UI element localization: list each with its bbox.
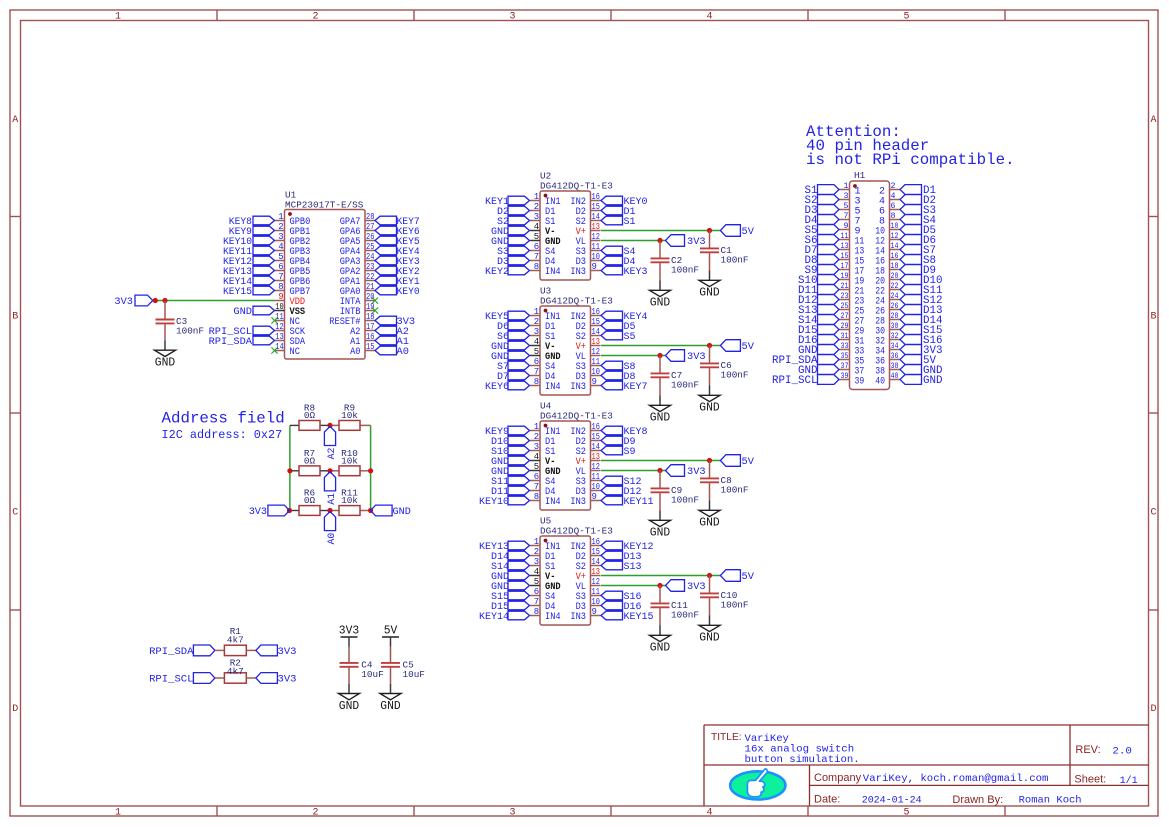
junction A2 xyxy=(327,423,332,428)
svg-text:10: 10 xyxy=(592,482,600,492)
H1 pin 6 xyxy=(879,202,900,218)
U5 pin 16 IN2 xyxy=(570,537,600,553)
svg-text:4: 4 xyxy=(278,242,283,252)
global label KEY2 xyxy=(375,266,420,278)
svg-text:3V3: 3V3 xyxy=(339,625,359,638)
U5 pin 1 IN1 xyxy=(530,537,561,553)
svg-text:23: 23 xyxy=(841,292,849,301)
global label GND xyxy=(798,365,839,378)
U4 pin 9 IN3 xyxy=(570,492,600,508)
svg-text:GND: GND xyxy=(155,357,175,370)
svg-text:100nF: 100nF xyxy=(721,255,749,266)
capacitor C11 100nF xyxy=(650,586,700,655)
U1 pin 12 SCK xyxy=(275,322,306,338)
svg-text:24: 24 xyxy=(891,292,899,301)
wire 3V3 to U1 VDD xyxy=(153,300,275,302)
svg-text:17: 17 xyxy=(366,322,374,332)
svg-text:1/1: 1/1 xyxy=(1120,775,1138,787)
U3 pin 1 IN1 xyxy=(530,307,561,323)
svg-text:27: 27 xyxy=(366,222,374,232)
global label GND xyxy=(491,341,530,353)
resistor R7 0Ω xyxy=(299,448,320,476)
global label KEY13 xyxy=(223,266,275,278)
svg-text:3: 3 xyxy=(509,808,515,819)
global label GND xyxy=(900,375,943,388)
wire segment (right) xyxy=(360,470,371,472)
H1 pin 4 xyxy=(879,192,900,208)
svg-text:15: 15 xyxy=(592,317,600,327)
svg-text:100nF: 100nF xyxy=(721,600,749,611)
global label S8 xyxy=(900,255,936,268)
U5 pin 10 D3 xyxy=(576,597,601,613)
svg-text:5: 5 xyxy=(534,347,539,357)
svg-text:DG412DQ-T1-E3: DG412DQ-T1-E3 xyxy=(540,411,613,422)
H1 pin 37 xyxy=(839,362,864,378)
global label KEY6 xyxy=(375,226,420,238)
global label RPI_SCL xyxy=(772,375,839,388)
wire U3 VL to 3V3 xyxy=(601,355,666,357)
svg-text:37: 37 xyxy=(841,362,849,371)
global label D12 xyxy=(798,295,839,308)
global label S3 xyxy=(497,246,530,258)
svg-text:8: 8 xyxy=(278,282,283,292)
global label RPI_SCL xyxy=(149,673,215,686)
svg-text:13: 13 xyxy=(841,242,849,251)
global label KEY5 xyxy=(375,236,420,248)
svg-text:13: 13 xyxy=(275,332,283,342)
svg-text:21: 21 xyxy=(366,282,374,292)
svg-text:GND: GND xyxy=(923,375,943,387)
junction 3V3 xyxy=(657,468,662,473)
svg-text:A2: A2 xyxy=(326,448,338,460)
global label D11 xyxy=(798,285,839,298)
global label D4 xyxy=(601,256,636,268)
global label KEY4 xyxy=(601,311,648,323)
U2 pin 10 D3 xyxy=(576,252,601,268)
U5 pin 15 D2 xyxy=(576,547,601,563)
svg-text:Drawn By:: Drawn By: xyxy=(952,794,1003,806)
U3 pin 14 S2 xyxy=(576,327,601,343)
svg-text:10: 10 xyxy=(275,302,283,312)
global label D16 xyxy=(601,601,642,613)
wire U4 V+ to 5V xyxy=(601,460,720,462)
H1 pin 7 xyxy=(839,212,861,228)
svg-text:7: 7 xyxy=(534,482,539,492)
U1 pin 23 GPA2 xyxy=(340,262,375,278)
power label 3V3 xyxy=(666,580,706,593)
svg-text:5V: 5V xyxy=(384,625,398,638)
U2 pin 6 S4 xyxy=(530,242,555,258)
U4 pin 6 S4 xyxy=(530,472,555,488)
capacitor C3 100nF xyxy=(155,301,205,370)
svg-text:40: 40 xyxy=(891,372,899,381)
resistor R6 0Ω xyxy=(299,488,320,516)
svg-text:S1: S1 xyxy=(624,216,636,228)
svg-text:GND: GND xyxy=(699,517,719,530)
svg-text:18: 18 xyxy=(366,312,374,322)
U5 pin 12 VL xyxy=(576,577,601,593)
global label S12 xyxy=(601,476,642,488)
U3 pin 10 D3 xyxy=(576,367,601,383)
svg-text:12: 12 xyxy=(592,347,600,357)
svg-text:3: 3 xyxy=(278,232,283,242)
svg-text:3V3: 3V3 xyxy=(687,236,706,248)
junction 3V3 xyxy=(657,238,662,243)
svg-text:GND: GND xyxy=(650,297,670,310)
power label 3V3 (address field) xyxy=(249,505,290,518)
svg-text:17: 17 xyxy=(841,262,849,271)
global label S16 xyxy=(601,591,642,603)
H1 pin 36 xyxy=(875,352,900,368)
U1 pin 3 GPB2 xyxy=(275,232,311,248)
svg-text:3V3: 3V3 xyxy=(278,646,297,658)
svg-text:22: 22 xyxy=(891,282,899,291)
svg-text:KEY10: KEY10 xyxy=(479,496,509,508)
svg-text:D: D xyxy=(1150,704,1156,715)
svg-text:23: 23 xyxy=(366,262,374,272)
U2 pin 1 IN1 xyxy=(530,192,561,208)
wire segment (right) xyxy=(360,424,371,426)
U1 pin 2 GPB1 xyxy=(275,222,311,238)
wire segment (left) xyxy=(290,470,299,472)
svg-text:4: 4 xyxy=(706,12,712,23)
global label D8 xyxy=(601,371,636,383)
global label KEY7 xyxy=(375,216,420,228)
capacitor C4 10uF xyxy=(339,647,384,713)
junction at C3 top xyxy=(162,298,167,303)
svg-text:14: 14 xyxy=(592,442,600,452)
svg-text:KEY6: KEY6 xyxy=(485,381,509,393)
svg-text:4: 4 xyxy=(891,192,896,201)
svg-text:36: 36 xyxy=(891,352,899,361)
capacitor C9 100nF xyxy=(650,471,700,540)
svg-text:A0: A0 xyxy=(397,346,409,358)
U1 pin 13 SDA xyxy=(275,332,306,348)
logo (hand in ellipse) xyxy=(730,769,785,800)
frame column numbers xyxy=(115,12,910,819)
U3 pin 11 S3 xyxy=(576,357,601,373)
svg-text:11: 11 xyxy=(592,472,600,482)
global label A1 (rotated) xyxy=(324,472,337,505)
U1 pin 21 GPA0 xyxy=(340,282,375,298)
junction at 3V3 label xyxy=(153,298,158,303)
power label 5V xyxy=(720,225,754,238)
svg-text:1: 1 xyxy=(844,182,849,191)
junction 5V xyxy=(707,228,712,233)
global label KEY3 xyxy=(375,256,420,268)
U2 pin 3 S1 xyxy=(530,212,555,228)
svg-text:16: 16 xyxy=(592,537,600,547)
svg-text:31: 31 xyxy=(841,332,849,341)
svg-text:33: 33 xyxy=(841,342,849,351)
H1 pin 22 xyxy=(875,282,900,298)
title block text xyxy=(711,732,1138,806)
U3 pin 15 D2 xyxy=(576,317,601,333)
global label S3 xyxy=(900,205,936,218)
svg-text:18: 18 xyxy=(891,262,899,271)
global label KEY15 xyxy=(601,611,654,623)
junction 3V3 xyxy=(287,508,292,513)
svg-text:A0: A0 xyxy=(326,533,338,545)
svg-text:100nF: 100nF xyxy=(176,326,204,337)
frame row letters xyxy=(12,115,1156,715)
H1 pin 13 xyxy=(839,242,864,258)
H1 pin 38 xyxy=(875,362,900,378)
svg-text:DG412DQ-T1-E3: DG412DQ-T1-E3 xyxy=(540,181,613,192)
svg-text:RPI_SDA: RPI_SDA xyxy=(209,336,253,348)
svg-text:4k7: 4k7 xyxy=(227,666,244,677)
global label D14 xyxy=(900,315,943,328)
global label S15 xyxy=(491,591,530,603)
svg-text:VariKey, koch.roman@gmail.com: VariKey, koch.roman@gmail.com xyxy=(863,773,1049,785)
global label KEY2 xyxy=(485,266,530,278)
svg-text:20: 20 xyxy=(366,292,374,302)
capacitor C7 100nF xyxy=(650,356,700,425)
svg-text:4: 4 xyxy=(534,567,539,577)
U1 pin 1 GPB0 xyxy=(275,212,311,228)
H1 pin 8 xyxy=(879,212,900,228)
global label GND xyxy=(491,226,530,238)
svg-text:3: 3 xyxy=(509,12,515,23)
junction row2 left xyxy=(287,468,292,473)
svg-text:20: 20 xyxy=(891,272,899,281)
svg-text:8: 8 xyxy=(534,377,539,387)
svg-text:38: 38 xyxy=(891,362,899,371)
svg-text:5: 5 xyxy=(534,462,539,472)
IC U1 MCP23017T-E/SS xyxy=(285,190,366,360)
svg-text:GND: GND xyxy=(650,412,670,425)
U1 pin 19 INTB xyxy=(340,302,378,318)
global label S1 xyxy=(805,185,840,198)
svg-text:Roman Koch: Roman Koch xyxy=(1019,794,1082,806)
U3 pin 4 V- xyxy=(530,337,555,353)
resistor R2 4k7 xyxy=(215,658,256,684)
svg-text:KEY3: KEY3 xyxy=(624,266,648,278)
wire segment (right) xyxy=(360,510,371,512)
svg-text:16: 16 xyxy=(592,307,600,317)
global label S14 xyxy=(491,561,530,573)
global label S5 xyxy=(601,331,636,343)
svg-text:4k7: 4k7 xyxy=(227,634,244,645)
svg-text:8: 8 xyxy=(534,607,539,617)
U4 pin 5 GND xyxy=(530,462,561,478)
global label KEY8 xyxy=(229,216,275,228)
global label D1 xyxy=(900,185,936,198)
junction A0 xyxy=(327,508,332,513)
U3 pin 5 GND xyxy=(530,347,561,363)
junction 3V3 xyxy=(657,583,662,588)
svg-text:16: 16 xyxy=(891,252,899,261)
svg-text:3: 3 xyxy=(534,327,539,337)
H1 pin 30 xyxy=(875,322,900,338)
global label D15 xyxy=(798,325,839,338)
svg-text:8: 8 xyxy=(534,262,539,272)
svg-text:30: 30 xyxy=(891,322,899,331)
junction 3V3 xyxy=(657,353,662,358)
global label D6 xyxy=(900,235,936,248)
svg-text:C: C xyxy=(12,508,18,519)
svg-text:5V: 5V xyxy=(742,341,755,353)
U2 pin 11 S3 xyxy=(576,242,601,258)
wire U4 VL to 3V3 xyxy=(601,470,666,472)
svg-text:RPI_SCL: RPI_SCL xyxy=(149,674,193,686)
svg-text:16: 16 xyxy=(592,422,600,432)
global label D3 xyxy=(805,205,840,218)
svg-text:KEY14: KEY14 xyxy=(479,611,509,623)
svg-text:B: B xyxy=(12,312,18,323)
junction A1 xyxy=(327,468,332,473)
svg-text:2: 2 xyxy=(534,547,539,557)
svg-text:KEY2: KEY2 xyxy=(485,266,509,278)
svg-text:2: 2 xyxy=(534,202,539,212)
svg-text:32: 32 xyxy=(891,332,899,341)
wire 3V3 vertical (address field left) xyxy=(289,425,291,510)
global label S11 xyxy=(491,476,530,488)
svg-text:24: 24 xyxy=(366,252,374,262)
power label 5V xyxy=(720,455,754,468)
global label S10 xyxy=(798,275,839,288)
svg-text:10: 10 xyxy=(891,222,899,231)
svg-text:3: 3 xyxy=(534,212,539,222)
U4 pin 3 S1 xyxy=(530,442,555,458)
U2 pin 15 D2 xyxy=(576,202,601,218)
H1 pin 34 xyxy=(875,342,900,358)
svg-text:KEY7: KEY7 xyxy=(624,381,648,393)
junction 5V xyxy=(707,458,712,463)
svg-text:12: 12 xyxy=(275,322,283,332)
svg-text:6: 6 xyxy=(278,262,283,272)
svg-text:5V: 5V xyxy=(742,456,755,468)
global label S8 xyxy=(601,361,636,373)
note: Attention 40 pin header not RPi compatible xyxy=(806,123,1015,169)
power label 5V xyxy=(720,570,754,583)
U2 pin 2 D1 xyxy=(530,202,555,218)
svg-text:IN4: IN4 xyxy=(545,611,561,623)
global label KEY11 xyxy=(223,246,275,258)
svg-text:D: D xyxy=(12,704,18,715)
global label 3V3 xyxy=(375,316,415,328)
svg-text:GND: GND xyxy=(650,642,670,655)
svg-text:15: 15 xyxy=(592,202,600,212)
svg-text:4: 4 xyxy=(706,808,712,819)
svg-text:12: 12 xyxy=(592,577,600,587)
svg-text:11: 11 xyxy=(592,357,600,367)
global label D15 xyxy=(491,601,530,613)
svg-text:7: 7 xyxy=(844,212,849,221)
U5 pin 3 S1 xyxy=(530,557,555,573)
global label RPI_SDA xyxy=(209,336,275,348)
svg-text:0Ω: 0Ω xyxy=(304,495,315,506)
U1 pin 7 GPB6 xyxy=(275,272,311,288)
svg-text:4: 4 xyxy=(534,337,539,347)
svg-text:NC: NC xyxy=(290,346,300,358)
svg-text:3V3: 3V3 xyxy=(278,674,297,686)
global label KEY4 xyxy=(375,246,420,258)
H1 pin 29 xyxy=(839,322,864,338)
global label S2 xyxy=(497,216,530,228)
U2 pin 14 S2 xyxy=(576,212,601,228)
global label KEY9 xyxy=(485,426,530,438)
svg-text:28: 28 xyxy=(366,212,374,222)
svg-text:1: 1 xyxy=(115,12,121,23)
svg-text:GND: GND xyxy=(233,306,252,318)
svg-text:100nF: 100nF xyxy=(721,485,749,496)
U3 pin 12 VL xyxy=(576,347,601,363)
U4 pin 14 S2 xyxy=(576,442,601,458)
svg-text:12: 12 xyxy=(891,232,899,241)
U5 pin 6 S4 xyxy=(530,587,555,603)
global label D4 xyxy=(805,215,840,228)
U4 pin 4 V- xyxy=(530,452,555,468)
global label GND xyxy=(491,456,530,468)
global label D12 xyxy=(601,486,642,498)
U5 pin 9 IN3 xyxy=(570,607,600,623)
svg-text:I2C address: 0x27: I2C address: 0x27 xyxy=(162,428,283,442)
global label D8 xyxy=(805,255,840,268)
resistor R1 4k7 xyxy=(215,626,256,656)
svg-text:9: 9 xyxy=(592,262,597,272)
svg-text:RPI_SDA: RPI_SDA xyxy=(149,646,194,658)
global label S4 xyxy=(601,246,636,258)
global label S2 xyxy=(805,195,840,208)
global label KEY9 xyxy=(229,226,275,238)
title block frame xyxy=(704,725,1149,806)
global label A0 (rotated) xyxy=(324,512,337,545)
svg-text:6: 6 xyxy=(534,472,539,482)
svg-text:3: 3 xyxy=(534,557,539,567)
svg-text:A1: A1 xyxy=(326,493,338,505)
U1 pin 11 NC xyxy=(271,312,300,328)
capacitor C10 100nF xyxy=(699,576,749,645)
svg-text:1: 1 xyxy=(115,808,121,819)
global label GND xyxy=(900,365,943,378)
svg-text:is not RPi compatible.: is not RPi compatible. xyxy=(806,151,1015,169)
svg-text:7: 7 xyxy=(534,597,539,607)
svg-text:7: 7 xyxy=(534,367,539,377)
svg-text:5: 5 xyxy=(534,577,539,587)
IC U3 DG412DQ-T1-E3 xyxy=(540,286,613,396)
svg-text:13: 13 xyxy=(592,567,600,577)
H1 pin 2 xyxy=(879,182,900,198)
H1 pin 17 xyxy=(839,262,864,278)
global label D16 xyxy=(798,335,839,348)
capacitor C5 10uF xyxy=(380,647,425,713)
wire U5 V+ to 5V xyxy=(601,575,720,577)
svg-text:25: 25 xyxy=(841,302,849,311)
svg-text:2: 2 xyxy=(891,182,896,191)
svg-text:39: 39 xyxy=(841,372,849,381)
svg-text:2: 2 xyxy=(312,12,318,23)
U4 pin 13 V+ xyxy=(576,452,601,468)
H1 pin 19 xyxy=(839,272,864,288)
svg-text:100nF: 100nF xyxy=(671,265,699,276)
svg-text:100nF: 100nF xyxy=(671,380,699,391)
H1 pin 14 xyxy=(875,242,900,258)
svg-text:25: 25 xyxy=(366,242,374,252)
svg-text:S9: S9 xyxy=(624,446,636,458)
svg-text:3V3: 3V3 xyxy=(687,466,706,478)
svg-text:40: 40 xyxy=(875,377,885,388)
svg-text:IN4: IN4 xyxy=(545,381,561,393)
svg-text:5V: 5V xyxy=(742,571,755,583)
svg-text:TITLE:: TITLE: xyxy=(711,732,742,743)
svg-text:C: C xyxy=(1150,508,1156,519)
global label KEY1 xyxy=(485,196,530,208)
U4 pin 1 IN1 xyxy=(530,422,561,438)
svg-text:15: 15 xyxy=(592,547,600,557)
U4 pin 8 IN4 xyxy=(530,492,561,508)
global label D6 xyxy=(497,321,530,333)
